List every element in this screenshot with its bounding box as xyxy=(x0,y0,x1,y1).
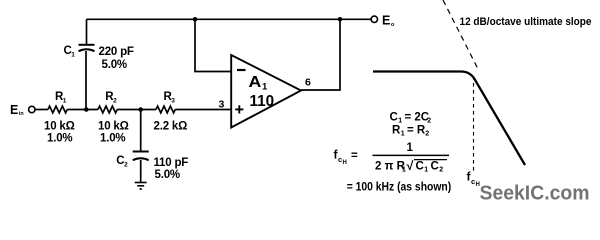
svg-text:2.2 kΩ: 2.2 kΩ xyxy=(154,121,188,133)
svg-text:2 π R: 2 π R xyxy=(375,160,406,172)
junction dot at R2/R3/C2 node xyxy=(138,107,143,112)
svg-text:= 100 kHz (as shown): = 100 kHz (as shown) xyxy=(347,182,452,194)
svg-text:in: in xyxy=(19,111,24,117)
op-amp minus sign xyxy=(237,69,246,71)
svg-text:1: 1 xyxy=(401,131,405,138)
wire output pin 6 xyxy=(301,19,340,90)
svg-text:E: E xyxy=(10,103,18,117)
svg-text:2: 2 xyxy=(113,97,117,104)
svg-text:1.0%: 1.0% xyxy=(100,133,125,145)
svg-text:= R: = R xyxy=(407,125,426,137)
wire C1 upper lead xyxy=(86,19,88,44)
svg-text:110: 110 xyxy=(250,93,275,110)
svg-text:o: o xyxy=(391,22,395,28)
svg-text:10 kΩ: 10 kΩ xyxy=(44,121,75,133)
capacitor C1 xyxy=(79,45,95,51)
svg-text:C: C xyxy=(431,160,439,172)
svg-text:220 pF: 220 pF xyxy=(99,46,134,58)
ground xyxy=(135,183,147,190)
wire Ein to R1 xyxy=(35,109,48,111)
fraction bar xyxy=(373,154,450,156)
svg-text:1: 1 xyxy=(402,166,406,173)
svg-text:=: = xyxy=(351,150,358,162)
label R2 xyxy=(105,91,117,104)
wire R2 to R3 xyxy=(117,109,156,111)
svg-text:1: 1 xyxy=(71,51,75,58)
svg-text:2: 2 xyxy=(427,118,431,125)
wire feedback to inverting input xyxy=(195,19,231,71)
junction dot at R1/R2/C1 node xyxy=(84,107,89,112)
svg-text:3: 3 xyxy=(171,97,175,104)
svg-text:6: 6 xyxy=(305,77,311,89)
svg-text:12 dB/octave ultimate slope: 12 dB/octave ultimate slope xyxy=(460,16,592,28)
capacitor C2 xyxy=(133,152,149,161)
wire C2 to ground xyxy=(140,160,142,182)
label fch on axis xyxy=(467,170,480,189)
svg-text:2: 2 xyxy=(425,131,429,138)
formula fch equals xyxy=(334,148,359,167)
svg-text:110 pF: 110 pF xyxy=(154,157,189,169)
svg-text:1: 1 xyxy=(407,142,414,154)
svg-text:C: C xyxy=(390,112,398,124)
junction dot feedback tap xyxy=(193,17,198,22)
asymptote dashed slope xyxy=(443,0,479,71)
resistor R1 xyxy=(48,106,67,113)
svg-text:SeekIC.com: SeekIC.com xyxy=(480,181,590,204)
svg-text:1.0%: 1.0% xyxy=(47,133,72,145)
wire C1 lower lead xyxy=(85,51,87,110)
svg-text:2: 2 xyxy=(124,161,128,168)
svg-text:1: 1 xyxy=(424,166,428,173)
svg-text:1: 1 xyxy=(63,97,67,104)
label Eo xyxy=(382,14,395,28)
svg-text:2: 2 xyxy=(439,166,443,173)
junction dot output tap xyxy=(338,17,343,22)
op-amp plus sign xyxy=(235,105,243,113)
svg-text:5.0%: 5.0% xyxy=(155,169,180,181)
label R3 xyxy=(164,91,176,104)
svg-text:H: H xyxy=(343,160,347,166)
fraction denominator xyxy=(375,159,447,173)
wire R3 to op-amp xyxy=(175,109,231,111)
node Ein terminal xyxy=(29,106,35,112)
response curve xyxy=(373,72,525,166)
svg-text:1: 1 xyxy=(398,118,402,125)
svg-text:3: 3 xyxy=(219,99,225,111)
formula C1 = 2C2 xyxy=(390,112,432,125)
wire top feedback rail xyxy=(87,18,371,20)
label R1 xyxy=(55,91,67,104)
svg-text:√: √ xyxy=(407,159,414,173)
node Eo terminal xyxy=(371,16,377,22)
svg-text:E: E xyxy=(382,14,390,28)
resistor R2 xyxy=(98,106,117,113)
op-amp label A1 xyxy=(249,74,269,92)
label C2 xyxy=(116,155,128,168)
resistor R3 xyxy=(156,106,175,113)
wire R1 to R2 xyxy=(67,109,98,111)
dashed fc marker line xyxy=(473,76,475,171)
svg-text:C: C xyxy=(416,160,424,172)
svg-text:A: A xyxy=(249,74,262,91)
formula R1 = R2 xyxy=(392,125,429,138)
svg-text:R: R xyxy=(392,125,401,137)
svg-text:= 2C: = 2C xyxy=(405,112,430,124)
label C1 xyxy=(64,45,76,58)
svg-text:10 kΩ: 10 kΩ xyxy=(98,121,129,133)
op-amp A1 triangle xyxy=(231,55,301,128)
label Ein xyxy=(10,103,24,117)
wire C2 lead xyxy=(140,110,142,152)
svg-text:1: 1 xyxy=(262,81,268,92)
svg-text:5.0%: 5.0% xyxy=(102,59,127,71)
